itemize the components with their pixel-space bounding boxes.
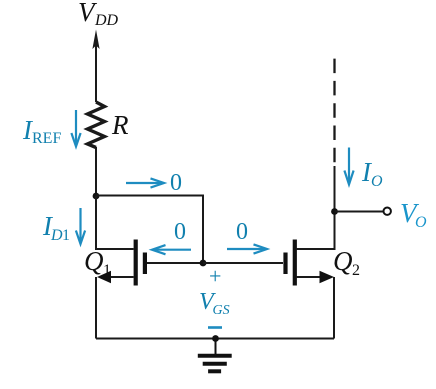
label ID1	[42, 211, 70, 244]
wire Q2 drain up to node C	[297, 212, 335, 250]
svg-text:DD: DD	[94, 12, 119, 29]
label IREF	[22, 115, 61, 147]
label Q2	[333, 246, 360, 279]
svg-text:0: 0	[170, 170, 182, 196]
wire solid segment above node C	[334, 166, 336, 212]
svg-text:O: O	[415, 214, 427, 231]
svg-text:1: 1	[62, 227, 70, 244]
ground	[198, 339, 232, 372]
output terminal circle	[384, 208, 391, 215]
transistor Q1	[97, 240, 145, 286]
svg-text:0: 0	[174, 219, 186, 245]
svg-text:2: 2	[352, 262, 360, 279]
wire node A to gate rail corner	[96, 196, 203, 264]
node B junction dot	[200, 260, 207, 267]
current arrow 0 (into Q2 gate)	[227, 244, 267, 253]
wire Q1 gate to node B	[147, 262, 203, 264]
IREF arrow	[71, 110, 80, 147]
wire node B to Q2 gate	[203, 262, 283, 264]
svg-text:0: 0	[236, 219, 248, 245]
svg-text:REF: REF	[32, 130, 61, 147]
ground junction dot	[212, 335, 219, 342]
VDD arrow	[92, 30, 99, 103]
wire node A down to Q1 drain	[96, 196, 134, 249]
node A junction dot	[93, 193, 100, 200]
label − (VGS minus)	[208, 326, 222, 329]
ID1 arrow	[76, 208, 85, 244]
transistor Q2	[286, 240, 335, 286]
IO arrow	[344, 148, 353, 185]
dashed drain continuation wire	[333, 59, 335, 166]
svg-text:Q: Q	[333, 246, 353, 276]
current arrow 0 (into Q1 gate)	[152, 245, 191, 254]
node VDD label	[78, 0, 119, 29]
label VO	[400, 198, 427, 231]
resistor R	[88, 102, 105, 148]
svg-text:GS: GS	[213, 303, 230, 318]
bottom rail wire	[96, 338, 334, 340]
label VGS	[199, 289, 230, 318]
wire Q2 source down to bottom rail	[333, 277, 335, 339]
wire resistor to node A	[95, 147, 97, 196]
svg-text:Q: Q	[84, 246, 104, 276]
svg-text:1: 1	[103, 262, 111, 279]
svg-text:R: R	[111, 110, 129, 140]
svg-text:+: +	[209, 264, 221, 289]
node C junction dot	[331, 208, 338, 215]
label Q1	[84, 246, 111, 279]
wire Q1 source down to bottom rail	[95, 277, 97, 339]
label IO	[361, 157, 383, 190]
current arrow 0 (top)	[126, 178, 164, 187]
svg-text:O: O	[371, 173, 383, 190]
wire node C to output terminal	[335, 211, 384, 213]
